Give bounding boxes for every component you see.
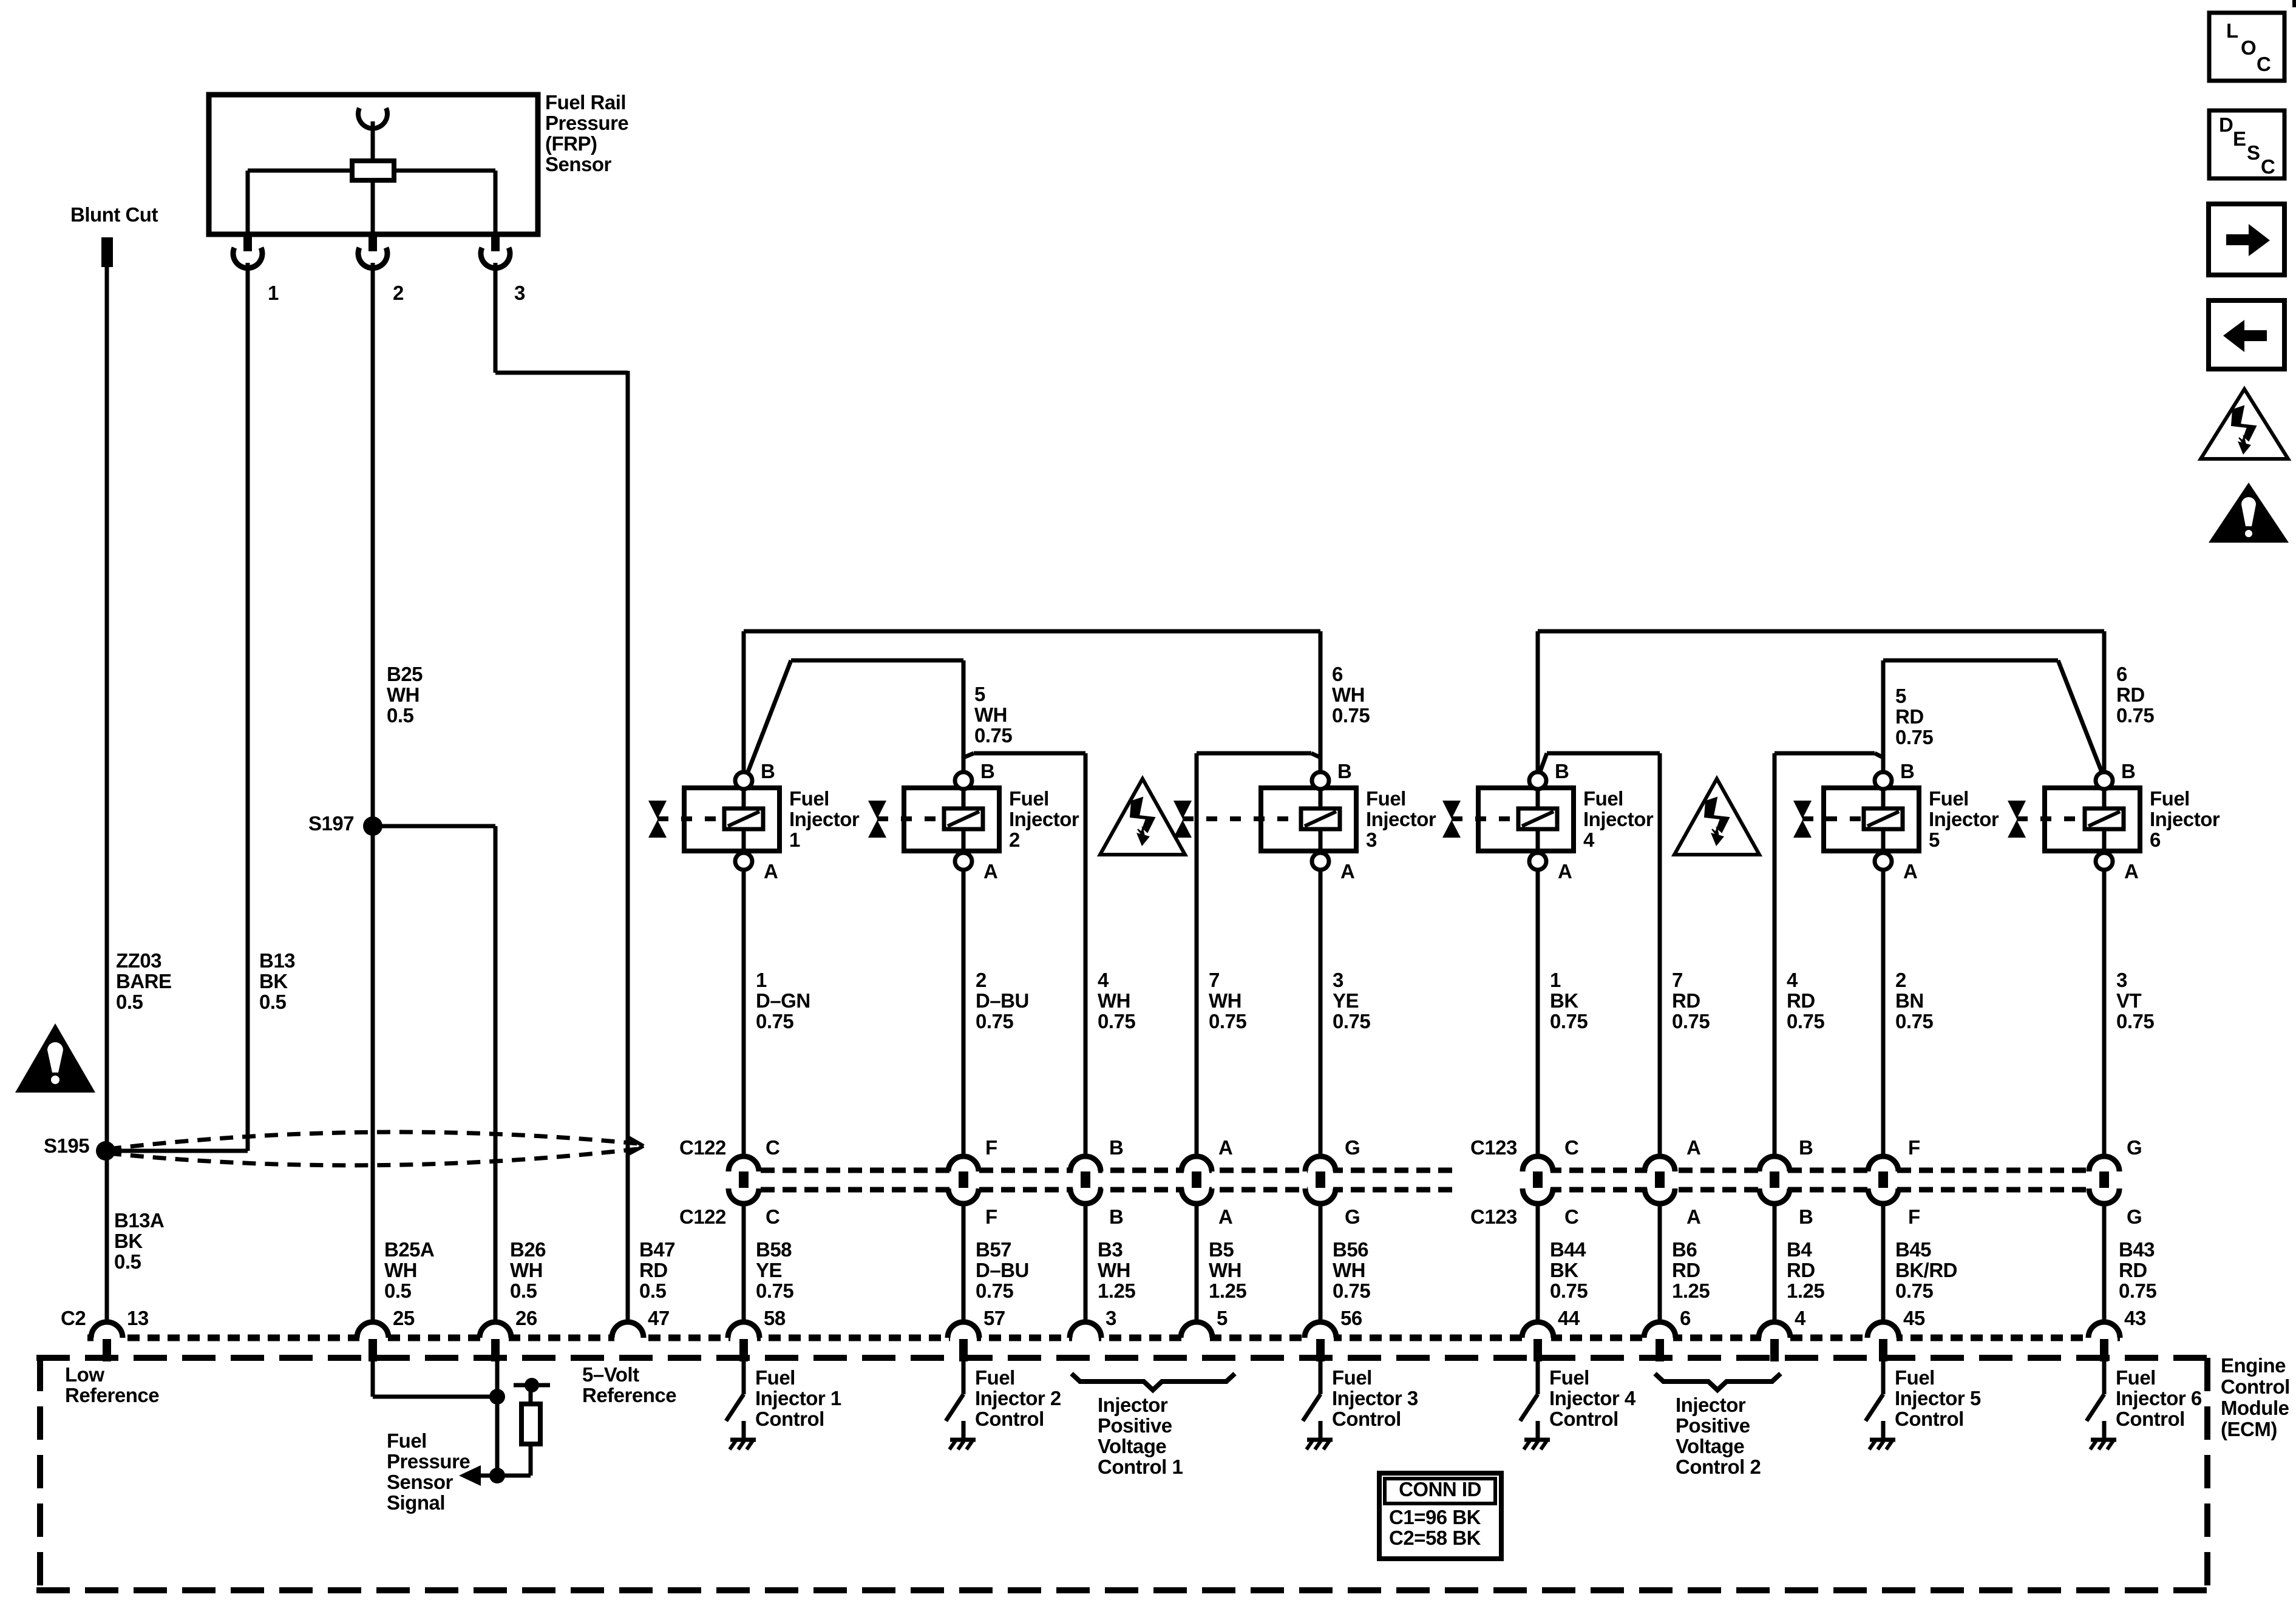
svg-text:0.5: 0.5 <box>384 1280 412 1302</box>
svg-text:13: 13 <box>127 1307 149 1329</box>
svg-text:C: C <box>1564 1136 1578 1159</box>
svg-text:5: 5 <box>1895 685 1906 707</box>
svg-text:C: C <box>2261 155 2275 178</box>
svg-text:C122: C122 <box>679 1136 726 1159</box>
svg-text:0.75: 0.75 <box>1787 1010 1824 1032</box>
svg-text:Injector 1: Injector 1 <box>755 1387 841 1409</box>
svg-text:0.75: 0.75 <box>2119 1280 2156 1302</box>
svg-text:Control: Control <box>755 1408 824 1430</box>
svg-text:C123: C123 <box>1470 1136 1517 1159</box>
svg-text:Injector: Injector <box>1929 808 1999 830</box>
svg-text:B: B <box>1799 1136 1813 1159</box>
svg-text:2: 2 <box>976 969 987 991</box>
svg-text:B: B <box>2121 760 2135 782</box>
svg-text:Low: Low <box>65 1363 104 1386</box>
svg-text:0.75: 0.75 <box>1550 1280 1588 1302</box>
svg-text:S: S <box>2247 141 2260 164</box>
svg-text:B13: B13 <box>259 949 295 972</box>
svg-text:44: 44 <box>1558 1307 1580 1329</box>
svg-text:G: G <box>2127 1136 2142 1159</box>
svg-text:WH: WH <box>1098 1259 1130 1281</box>
svg-text:B: B <box>980 760 994 782</box>
svg-text:0.75: 0.75 <box>756 1280 793 1302</box>
svg-text:0.75: 0.75 <box>976 1010 1013 1032</box>
svg-text:C1=96 BK: C1=96 BK <box>1389 1506 1481 1528</box>
svg-text:B6: B6 <box>1672 1238 1697 1261</box>
svg-text:1.25: 1.25 <box>1672 1280 1710 1302</box>
svg-text:ZZ03: ZZ03 <box>116 949 161 972</box>
svg-text:WH: WH <box>387 683 419 706</box>
svg-text:Injector 4: Injector 4 <box>1549 1387 1636 1409</box>
svg-text:0.5: 0.5 <box>639 1280 667 1302</box>
svg-text:7: 7 <box>1209 969 1220 991</box>
svg-text:Fuel Rail: Fuel Rail <box>545 91 626 114</box>
svg-text:Control: Control <box>2221 1375 2290 1398</box>
svg-text:1: 1 <box>756 969 767 991</box>
svg-text:Signal: Signal <box>387 1491 445 1514</box>
svg-text:WH: WH <box>510 1259 543 1281</box>
svg-text:5: 5 <box>974 683 985 705</box>
svg-text:Injector 5: Injector 5 <box>1895 1387 1981 1409</box>
svg-text:B44: B44 <box>1550 1238 1586 1261</box>
svg-text:RD: RD <box>639 1259 668 1281</box>
svg-text:0.5: 0.5 <box>116 991 143 1013</box>
svg-text:6: 6 <box>2116 663 2127 685</box>
svg-text:B26: B26 <box>510 1238 546 1261</box>
svg-text:2: 2 <box>393 282 404 304</box>
svg-text:B: B <box>1555 760 1569 782</box>
svg-text:Injector: Injector <box>1583 808 1654 830</box>
svg-text:L: L <box>2226 19 2238 42</box>
svg-text:RD: RD <box>2116 683 2145 706</box>
svg-text:YE: YE <box>756 1259 782 1281</box>
svg-text:1.25: 1.25 <box>1209 1280 1246 1302</box>
svg-text:3: 3 <box>1106 1307 1116 1329</box>
svg-text:0.5: 0.5 <box>114 1250 141 1273</box>
svg-text:B45: B45 <box>1895 1238 1931 1261</box>
svg-text:WH: WH <box>1209 989 1241 1012</box>
svg-text:Voltage: Voltage <box>1098 1435 1166 1457</box>
svg-text:Control: Control <box>975 1408 1044 1430</box>
svg-text:RD: RD <box>2119 1259 2147 1281</box>
svg-text:Sensor: Sensor <box>545 153 612 175</box>
svg-text:BARE: BARE <box>116 970 172 992</box>
svg-text:Control: Control <box>1549 1408 1618 1430</box>
svg-text:5: 5 <box>1929 829 1940 851</box>
svg-text:0.5: 0.5 <box>259 991 287 1013</box>
svg-text:O: O <box>2241 36 2256 59</box>
svg-text:0.75: 0.75 <box>1332 704 1370 727</box>
svg-text:(FRP): (FRP) <box>545 132 597 155</box>
svg-text:Fuel: Fuel <box>789 787 829 810</box>
svg-text:WH: WH <box>974 703 1007 726</box>
svg-text:0.75: 0.75 <box>1672 1010 1710 1032</box>
svg-text:B43: B43 <box>2119 1238 2155 1261</box>
svg-text:VT: VT <box>2116 989 2142 1012</box>
svg-text:B56: B56 <box>1333 1238 1368 1261</box>
svg-text:0.75: 0.75 <box>756 1010 793 1032</box>
svg-text:Injector 3: Injector 3 <box>1332 1387 1418 1409</box>
svg-text:Fuel: Fuel <box>1366 787 1406 810</box>
svg-text:G: G <box>1345 1205 1360 1228</box>
svg-text:Injector: Injector <box>1009 808 1079 830</box>
svg-text:Pressure: Pressure <box>387 1450 470 1473</box>
svg-text:Fuel: Fuel <box>755 1366 795 1389</box>
svg-text:Control: Control <box>2116 1408 2185 1430</box>
svg-text:BK: BK <box>114 1230 143 1252</box>
svg-text:BK: BK <box>259 970 288 992</box>
svg-text:45: 45 <box>1903 1307 1925 1329</box>
svg-text:B5: B5 <box>1209 1238 1234 1261</box>
svg-text:B: B <box>1799 1205 1813 1228</box>
svg-text:S195: S195 <box>44 1134 89 1157</box>
svg-text:0.75: 0.75 <box>1895 1010 1933 1032</box>
svg-text:WH: WH <box>1333 1259 1365 1281</box>
svg-text:57: 57 <box>983 1307 1005 1329</box>
svg-text:4: 4 <box>1787 969 1798 991</box>
svg-text:(ECM): (ECM) <box>2221 1418 2277 1440</box>
svg-text:0.75: 0.75 <box>1333 1010 1370 1032</box>
svg-text:Positive: Positive <box>1098 1414 1172 1437</box>
svg-text:B3: B3 <box>1098 1238 1123 1261</box>
svg-text:C: C <box>766 1136 779 1159</box>
svg-text:Fuel: Fuel <box>1929 787 1969 810</box>
svg-text:6: 6 <box>1332 663 1343 685</box>
svg-text:Fuel: Fuel <box>1895 1366 1935 1389</box>
svg-text:B: B <box>1900 760 1914 782</box>
svg-text:B58: B58 <box>756 1238 792 1261</box>
svg-text:WH: WH <box>1098 989 1130 1012</box>
svg-text:Fuel: Fuel <box>1332 1366 1372 1389</box>
svg-text:F: F <box>985 1136 997 1159</box>
svg-text:RD: RD <box>1787 1259 1815 1281</box>
svg-text:Positive: Positive <box>1676 1414 1750 1437</box>
svg-text:Sensor: Sensor <box>387 1471 453 1493</box>
svg-text:F: F <box>1908 1205 1920 1228</box>
svg-text:C: C <box>2257 53 2271 75</box>
svg-text:WH: WH <box>1209 1259 1241 1281</box>
svg-text:25: 25 <box>393 1307 415 1329</box>
svg-text:0.75: 0.75 <box>974 724 1012 747</box>
svg-text:43: 43 <box>2124 1307 2146 1329</box>
svg-text:RD: RD <box>1895 705 1924 728</box>
svg-text:Module: Module <box>2221 1397 2289 1419</box>
svg-text:5–Volt: 5–Volt <box>582 1363 639 1386</box>
svg-text:F: F <box>985 1205 997 1228</box>
svg-text:56: 56 <box>1340 1307 1362 1329</box>
svg-text:A: A <box>1686 1136 1700 1159</box>
svg-text:1: 1 <box>1550 969 1561 991</box>
svg-text:6: 6 <box>1680 1307 1691 1329</box>
svg-text:Fuel: Fuel <box>975 1366 1015 1389</box>
svg-text:3: 3 <box>1366 829 1377 851</box>
svg-text:0.75: 0.75 <box>2116 1010 2154 1032</box>
svg-text:Fuel: Fuel <box>1549 1366 1589 1389</box>
svg-text:C: C <box>1564 1205 1578 1228</box>
svg-text:B: B <box>1109 1136 1123 1159</box>
svg-text:Blunt Cut: Blunt Cut <box>70 203 158 226</box>
svg-text:Fuel: Fuel <box>2116 1366 2156 1389</box>
svg-text:5: 5 <box>1217 1307 1228 1329</box>
svg-text:D–BU: D–BU <box>976 989 1029 1012</box>
svg-text:Fuel: Fuel <box>2150 787 2190 810</box>
svg-text:Injector: Injector <box>789 808 860 830</box>
svg-text:Pressure: Pressure <box>545 112 628 134</box>
svg-text:3: 3 <box>2116 969 2127 991</box>
svg-text:0.75: 0.75 <box>1333 1280 1370 1302</box>
svg-text:A: A <box>1340 860 1354 883</box>
svg-text:4: 4 <box>1098 969 1109 991</box>
svg-text:A: A <box>983 860 997 883</box>
svg-text:3: 3 <box>514 282 525 304</box>
svg-text:A: A <box>2124 860 2138 883</box>
svg-text:Reference: Reference <box>65 1384 159 1406</box>
svg-text:4: 4 <box>1583 829 1595 851</box>
svg-text:WH: WH <box>384 1259 417 1281</box>
svg-text:A: A <box>1218 1205 1232 1228</box>
svg-text:Fuel: Fuel <box>387 1429 427 1452</box>
svg-text:A: A <box>1218 1136 1232 1159</box>
svg-text:D–GN: D–GN <box>756 989 810 1012</box>
svg-text:B25A: B25A <box>384 1238 434 1261</box>
svg-text:B13A: B13A <box>114 1209 164 1232</box>
svg-text:BN: BN <box>1895 989 1924 1012</box>
svg-text:0.75: 0.75 <box>976 1280 1013 1302</box>
svg-text:1.25: 1.25 <box>1098 1280 1135 1302</box>
svg-text:C: C <box>766 1205 779 1228</box>
svg-text:0.75: 0.75 <box>1895 1280 1933 1302</box>
svg-text:1.25: 1.25 <box>1787 1280 1824 1302</box>
svg-text:A: A <box>1903 860 1917 883</box>
svg-text:S197: S197 <box>308 812 354 835</box>
svg-text:E: E <box>2233 127 2246 150</box>
svg-text:Fuel: Fuel <box>1009 787 1049 810</box>
svg-text:G: G <box>1345 1136 1360 1159</box>
svg-text:G: G <box>2127 1205 2142 1228</box>
svg-text:Injector 6: Injector 6 <box>2116 1387 2202 1409</box>
svg-text:C123: C123 <box>1470 1205 1517 1228</box>
svg-text:BK/RD: BK/RD <box>1895 1259 1957 1281</box>
svg-text:Injector 2: Injector 2 <box>975 1387 1061 1409</box>
svg-text:47: 47 <box>648 1307 670 1329</box>
svg-text:Injector: Injector <box>1098 1394 1168 1416</box>
svg-text:B47: B47 <box>639 1238 675 1261</box>
svg-text:Voltage: Voltage <box>1676 1435 1744 1457</box>
svg-text:RD: RD <box>1672 989 1700 1012</box>
svg-text:WH: WH <box>1332 683 1365 706</box>
svg-text:0.5: 0.5 <box>387 704 414 727</box>
svg-text:1: 1 <box>789 829 800 851</box>
svg-text:B: B <box>1109 1205 1123 1228</box>
svg-text:A: A <box>1686 1205 1700 1228</box>
svg-text:B: B <box>761 760 775 782</box>
svg-text:3: 3 <box>1333 969 1343 991</box>
svg-text:2: 2 <box>1895 969 1906 991</box>
svg-text:0.75: 0.75 <box>2116 704 2154 727</box>
svg-text:C122: C122 <box>679 1205 726 1228</box>
svg-text:C2: C2 <box>61 1307 86 1329</box>
svg-text:A: A <box>1558 860 1572 883</box>
svg-text:A: A <box>764 860 778 883</box>
svg-text:Reference: Reference <box>582 1384 676 1406</box>
svg-text:0.5: 0.5 <box>510 1280 537 1302</box>
svg-text:BK: BK <box>1550 989 1578 1012</box>
svg-text:Fuel: Fuel <box>1583 787 1623 810</box>
svg-text:0.75: 0.75 <box>1550 1010 1588 1032</box>
svg-text:Control: Control <box>1332 1408 1401 1430</box>
svg-text:1: 1 <box>268 282 279 304</box>
svg-text:B25: B25 <box>387 663 423 685</box>
svg-text:YE: YE <box>1333 989 1359 1012</box>
svg-text:F: F <box>1908 1136 1920 1159</box>
svg-text:Control: Control <box>1895 1408 1964 1430</box>
svg-text:B: B <box>1337 760 1351 782</box>
svg-text:0.75: 0.75 <box>1098 1010 1135 1032</box>
svg-text:Control 1: Control 1 <box>1098 1456 1183 1478</box>
svg-text:RD: RD <box>1672 1259 1700 1281</box>
svg-text:Injector: Injector <box>2150 808 2220 830</box>
svg-text:58: 58 <box>764 1307 786 1329</box>
svg-text:Engine: Engine <box>2221 1354 2286 1377</box>
svg-text:B4: B4 <box>1787 1238 1812 1261</box>
svg-text:26: 26 <box>515 1307 537 1329</box>
svg-text:B57: B57 <box>976 1238 1011 1261</box>
svg-text:Injector: Injector <box>1676 1394 1746 1416</box>
svg-text:D–BU: D–BU <box>976 1259 1029 1281</box>
svg-text:BK: BK <box>1550 1259 1578 1281</box>
svg-text:C2=58 BK: C2=58 BK <box>1389 1527 1481 1549</box>
svg-text:Control 2: Control 2 <box>1676 1456 1761 1478</box>
svg-text:6: 6 <box>2150 829 2161 851</box>
svg-text:2: 2 <box>1009 829 1020 851</box>
svg-text:Injector: Injector <box>1366 808 1436 830</box>
svg-text:0.75: 0.75 <box>1209 1010 1246 1032</box>
svg-text:7: 7 <box>1672 969 1683 991</box>
svg-text:CONN ID: CONN ID <box>1399 1478 1481 1500</box>
svg-text:4: 4 <box>1795 1307 1806 1329</box>
svg-text:D: D <box>2219 114 2233 136</box>
svg-text:RD: RD <box>1787 989 1815 1012</box>
svg-text:0.75: 0.75 <box>1895 726 1933 748</box>
